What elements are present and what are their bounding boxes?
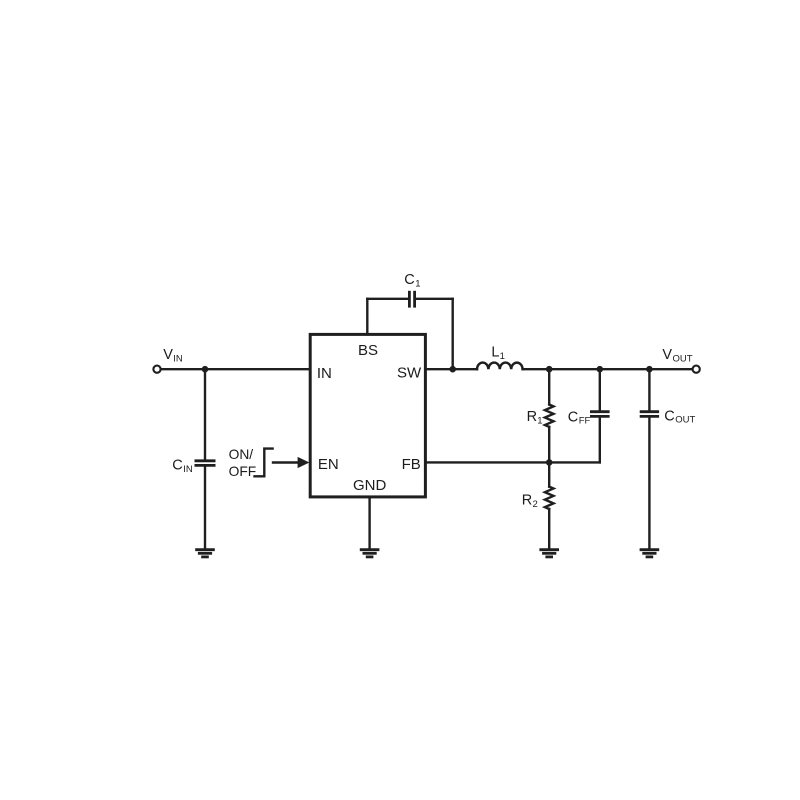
label R1 — [527, 409, 543, 426]
svg-text:OUT: OUT — [675, 415, 695, 426]
svg-text:OUT: OUT — [673, 354, 693, 365]
svg-text:GND: GND — [353, 477, 387, 494]
wire input rail VIN to IN pin — [161, 368, 310, 370]
ground R2 — [539, 550, 559, 557]
wire CIN top lead — [204, 369, 206, 460]
resistor R1 — [545, 405, 554, 427]
svg-text:C: C — [664, 408, 674, 424]
label C1 — [404, 272, 420, 289]
svg-text:FB: FB — [402, 456, 421, 473]
wire R2 top lead — [548, 462, 550, 486]
wire CIN bottom lead — [204, 466, 206, 549]
svg-text:C: C — [172, 458, 182, 474]
node VOUT terminal — [693, 366, 700, 373]
wire R2 bottom lead — [548, 509, 550, 549]
wire EN arrow line — [273, 461, 299, 463]
wire top left segment to C1 — [367, 298, 408, 300]
svg-text:1: 1 — [537, 415, 542, 426]
node junction R1 — [546, 366, 553, 373]
node junction CIN — [202, 366, 209, 373]
node junction CFF — [597, 366, 604, 373]
wire FB pin to CFF — [425, 461, 599, 463]
svg-text:SW: SW — [397, 365, 422, 382]
inductor L1 — [477, 363, 523, 370]
label CFF — [568, 409, 591, 426]
label ON/OFF — [229, 447, 257, 479]
ground COUT — [640, 550, 660, 557]
svg-text:ON/: ON/ — [229, 447, 254, 462]
node junction COUT — [646, 366, 653, 373]
node junction FB-R1-R2 — [546, 459, 553, 466]
label R2 — [522, 493, 538, 510]
svg-text:R: R — [522, 493, 532, 509]
wire EN arrowhead — [298, 457, 310, 468]
svg-text:IN: IN — [183, 464, 193, 475]
resistor R2 — [545, 487, 554, 509]
svg-text:R: R — [527, 409, 537, 425]
svg-text:IN: IN — [173, 353, 183, 364]
ground GND — [360, 550, 380, 557]
wire COUT bottom lead — [648, 417, 650, 549]
capacitor COUT — [640, 412, 659, 417]
wire COUT top lead — [648, 369, 650, 411]
svg-text:C: C — [568, 409, 578, 425]
label VIN — [163, 347, 183, 364]
svg-text:BS: BS — [358, 342, 378, 359]
svg-text:EN: EN — [318, 456, 339, 473]
capacitor CFF — [590, 412, 610, 417]
wire top right segment from C1 — [416, 298, 453, 300]
capacitor CIN — [195, 461, 216, 466]
wire BS stub — [366, 299, 368, 335]
svg-text:V: V — [662, 347, 672, 363]
wire R1 bottom lead — [548, 427, 550, 463]
wire CFF top lead — [599, 369, 601, 411]
ground CIN — [195, 550, 215, 557]
label VOUT — [662, 347, 692, 364]
capacitor C1 — [409, 291, 414, 308]
svg-text:FF: FF — [579, 416, 591, 427]
wire CFF bottom lead — [599, 417, 601, 462]
label CIN — [172, 458, 193, 475]
wire GND pin lead — [368, 497, 370, 549]
node VIN terminal — [153, 366, 160, 373]
wire C1 right vertical to SW node — [452, 299, 454, 369]
wire R1 top lead — [548, 369, 550, 404]
svg-text:1: 1 — [500, 351, 505, 362]
svg-text:1: 1 — [415, 279, 420, 290]
svg-text:OFF: OFF — [229, 464, 257, 479]
IC regulator box — [310, 334, 425, 497]
node junction SW-C1 — [449, 366, 456, 373]
wire ON/OFF step waveform symbol — [255, 449, 273, 477]
svg-text:L: L — [491, 344, 499, 360]
wire output rail — [523, 368, 693, 370]
svg-text:2: 2 — [533, 499, 538, 510]
svg-text:V: V — [163, 347, 173, 363]
label COUT — [664, 408, 695, 425]
svg-text:C: C — [404, 272, 414, 288]
label L1 — [491, 344, 504, 361]
svg-text:IN: IN — [317, 365, 332, 382]
wire SW pin — [425, 368, 477, 370]
